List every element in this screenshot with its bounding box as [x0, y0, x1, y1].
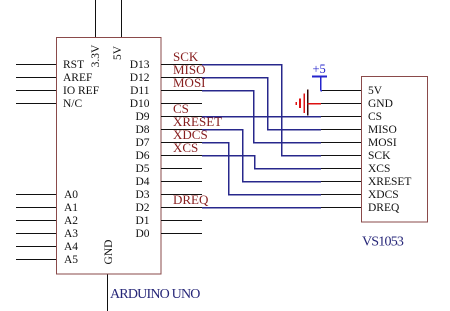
wire net XDCS D7 to XDCS: [202, 143, 321, 195]
svg-text:MOSI: MOSI: [368, 137, 397, 149]
pin A4 stub: [16, 246, 56, 248]
svg-text:D4: D4: [135, 176, 149, 188]
svg-text:DREQ: DREQ: [173, 192, 209, 207]
pin D11 stub: [161, 90, 202, 92]
svg-text:XCS: XCS: [173, 140, 198, 155]
wire net XRESET D8 to XRESET: [202, 130, 321, 182]
pin D7 stub: [161, 142, 202, 144]
pin GND stub: [321, 103, 361, 105]
svg-text:3.3V: 3.3V: [90, 44, 102, 67]
pin 5V stub: [321, 90, 361, 92]
wire GND to bottom: [107, 274, 109, 311]
svg-text:N/C: N/C: [63, 98, 83, 110]
svg-text:CS: CS: [368, 111, 382, 123]
svg-text:D11: D11: [130, 85, 150, 97]
svg-text:RST: RST: [63, 59, 84, 71]
pin D8 stub: [161, 129, 202, 131]
svg-text:IO REF: IO REF: [63, 85, 99, 97]
pin XDCS stub: [321, 194, 361, 196]
wire net SCK D13 to SCK: [202, 65, 321, 156]
pin A2 stub: [16, 220, 56, 222]
pin DREQ stub: [321, 207, 361, 209]
svg-text:5V: 5V: [368, 85, 383, 97]
pin XCS stub: [321, 168, 361, 170]
wire 5V to top: [121, 0, 123, 37]
svg-text:D5: D5: [135, 163, 149, 175]
pin A3 stub: [16, 233, 56, 235]
pin D1 stub: [161, 220, 202, 222]
pin D2 stub: [161, 207, 202, 209]
svg-text:D13: D13: [130, 59, 150, 71]
pin D10 stub: [161, 103, 202, 105]
svg-text:D6: D6: [135, 150, 149, 162]
svg-text:5V: 5V: [112, 45, 124, 60]
wire net XCS D6 to XCS: [202, 156, 321, 169]
pin A0 stub: [16, 194, 56, 196]
svg-text:AREF: AREF: [63, 72, 92, 84]
pin D6 stub: [161, 155, 202, 157]
svg-text:D7: D7: [135, 137, 149, 149]
pin CS stub: [321, 116, 361, 118]
svg-text:D0: D0: [135, 228, 149, 240]
svg-text:A3: A3: [64, 228, 78, 240]
svg-text:A5: A5: [64, 254, 78, 266]
svg-text:GND: GND: [368, 98, 393, 110]
pin MISO stub: [321, 129, 361, 131]
pin XRESET stub: [321, 181, 361, 183]
wire net MOSI D11 to MOSI: [202, 91, 321, 143]
pin D9 stub: [161, 116, 202, 118]
wire net DREQ D2 to DREQ: [202, 207, 321, 209]
pin D5 stub: [161, 168, 202, 170]
svg-text:ARDUINO UNO: ARDUINO UNO: [110, 287, 200, 302]
svg-text:D10: D10: [130, 98, 150, 110]
wire 3.3V to top: [95, 0, 97, 37]
svg-text:D1: D1: [135, 215, 149, 227]
wire net MISO D12 to MISO: [202, 78, 321, 130]
svg-text:A4: A4: [64, 241, 78, 253]
wire net CS D9 to CS: [202, 116, 321, 118]
svg-text:XRESET: XRESET: [368, 176, 411, 188]
pin D12 stub: [161, 77, 202, 79]
pin SCK stub: [321, 155, 361, 157]
pin D13 stub: [161, 64, 202, 66]
IC U1 ARDUINO UNO body: [57, 38, 162, 275]
svg-text:DREQ: DREQ: [368, 202, 400, 214]
power +5 symbol: [312, 77, 327, 91]
svg-text:D3: D3: [135, 189, 149, 201]
pin D0 stub: [161, 233, 202, 235]
wire ground to GND pin: [308, 103, 322, 105]
IC U2 VS1053 body: [362, 77, 428, 223]
svg-text:GND: GND: [103, 240, 115, 265]
ground symbol (red, bars): [296, 90, 321, 116]
svg-text:XDCS: XDCS: [368, 189, 399, 201]
svg-text:D9: D9: [135, 111, 149, 123]
pin A1 stub: [16, 207, 56, 209]
pin A5 stub: [16, 259, 56, 261]
pin D3 stub: [161, 194, 202, 196]
svg-text:MISO: MISO: [368, 124, 397, 136]
svg-text:VS1053: VS1053: [362, 235, 404, 250]
svg-text:A0: A0: [64, 189, 78, 201]
svg-text:D2: D2: [135, 202, 149, 214]
svg-text:XCS: XCS: [368, 163, 390, 175]
pin AREF stub: [16, 77, 56, 79]
svg-text:+5: +5: [313, 62, 326, 76]
svg-text:A2: A2: [64, 215, 78, 227]
pin RST stub: [16, 64, 56, 66]
svg-text:D8: D8: [135, 124, 149, 136]
pin MOSI stub: [321, 142, 361, 144]
pin N/C stub: [16, 103, 56, 105]
svg-text:D12: D12: [130, 72, 150, 84]
svg-text:SCK: SCK: [368, 150, 391, 162]
svg-text:MOSI: MOSI: [173, 75, 206, 90]
pin IO REF stub: [16, 90, 56, 92]
svg-text:A1: A1: [64, 202, 78, 214]
pin D4 stub: [161, 181, 202, 183]
